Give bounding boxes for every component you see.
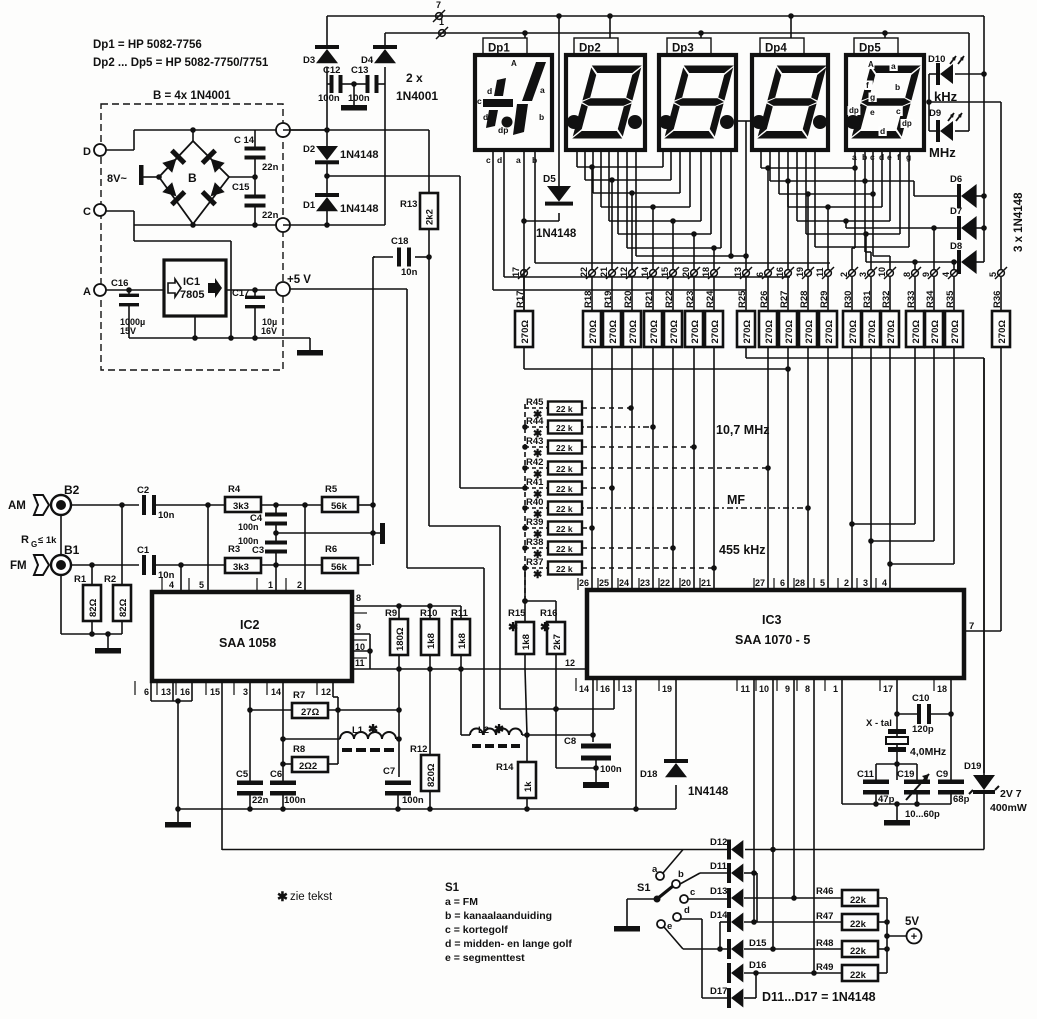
IC3 SAA1070-5 box [587, 590, 964, 678]
svg-text:4,0MHz: 4,0MHz [910, 746, 946, 758]
resistor R25 270 Ohm [745, 277, 747, 311]
svg-text:5: 5 [820, 578, 825, 588]
svg-text:c: c [486, 155, 491, 165]
svg-text:1: 1 [439, 17, 444, 27]
svg-text:c: c [690, 887, 695, 898]
svg-text:6: 6 [780, 578, 785, 588]
svg-text:82Ω: 82Ω [88, 598, 99, 617]
svg-text:R13: R13 [400, 199, 417, 210]
terminal C [94, 204, 106, 216]
svg-text:22 k: 22 k [556, 464, 573, 474]
svg-text:f: f [866, 80, 869, 90]
wire IC2 pin15 down to FM line [221, 681, 223, 850]
wire C1 node to IC2 pin4 [180, 565, 182, 592]
wire dashed R43 to column [582, 446, 694, 448]
svg-text:✱: ✱ [277, 889, 288, 904]
svg-text:16: 16 [180, 687, 190, 697]
svg-text:22 k: 22 k [556, 504, 573, 514]
svg-text:23: 23 [640, 578, 650, 588]
resistor R24 270 Ohm [713, 277, 715, 311]
svg-text:R1: R1 [74, 574, 87, 585]
svg-text:19: 19 [795, 267, 805, 277]
diode D1 [316, 197, 338, 211]
resistor R36 270 Ohm [1000, 277, 1002, 311]
svg-text:SAA 1070 - 5: SAA 1070 - 5 [735, 633, 810, 647]
wire R34 column from D7 line [933, 228, 935, 269]
svg-text:18: 18 [701, 267, 711, 277]
wire dp bus Dp2 Dp3 [635, 150, 637, 256]
svg-text:9: 9 [921, 272, 931, 277]
svg-text:R18: R18 [583, 291, 594, 308]
wire segment bus 6 left matrix [617, 150, 619, 234]
wire IC3 pin11 column [753, 678, 755, 873]
svg-text:270Ω: 270Ω [930, 320, 941, 344]
ground S1 [614, 926, 640, 932]
svg-text:68p: 68p [953, 794, 970, 805]
wire IC3 pin9 column [793, 678, 795, 898]
display Dp4 digit 8 [757, 66, 827, 139]
svg-text:C: C [83, 206, 91, 218]
svg-text:1N4148: 1N4148 [688, 786, 729, 798]
svg-text:D12: D12 [710, 837, 727, 848]
wire AC return [134, 240, 231, 242]
svg-text:R35: R35 [945, 290, 956, 308]
svg-text:d: d [483, 112, 488, 122]
svg-text:D15: D15 [749, 938, 767, 949]
svg-text:8: 8 [805, 684, 810, 694]
svg-text:4: 4 [169, 580, 174, 590]
svg-text:22n: 22n [262, 162, 279, 173]
IC1 ground pin [194, 316, 196, 338]
connector pin 17 [521, 270, 528, 277]
svg-text:82Ω: 82Ω [118, 598, 129, 617]
svg-text:A: A [511, 59, 517, 68]
svg-text:270Ω: 270Ω [710, 320, 721, 344]
wire IC3 pin16 down [613, 678, 615, 709]
svg-text:e = segmenttest: e = segmenttest [445, 952, 525, 964]
svg-text:IC3: IC3 [762, 613, 782, 627]
svg-text:C8: C8 [564, 736, 576, 747]
svg-text:3: 3 [863, 578, 868, 588]
svg-text:C7: C7 [383, 766, 395, 777]
svg-text:D17: D17 [710, 986, 727, 997]
wire Dp3 anode stub [700, 33, 702, 38]
svg-text:Dp4: Dp4 [765, 43, 787, 55]
node circle top rail [192, 130, 194, 141]
svg-text:R23: R23 [685, 291, 696, 308]
svg-text:D3: D3 [303, 55, 315, 66]
svg-text:R: R [21, 534, 29, 546]
svg-text:18: 18 [937, 684, 947, 694]
svg-text:22 k: 22 k [556, 443, 573, 453]
wire Dp1 d to bus [504, 276, 790, 278]
svg-text:Dp2: Dp2 [579, 43, 601, 55]
svg-text:R24: R24 [705, 290, 716, 308]
resistor R30 270 Ohm [851, 277, 853, 311]
display Dp5 letters [867, 60, 875, 69]
wire FM from IC2 pin15 to D12 [222, 849, 727, 851]
svg-text:+: + [911, 931, 917, 943]
svg-text:28: 28 [795, 578, 805, 588]
svg-text:R2: R2 [104, 574, 116, 585]
svg-text:100n: 100n [284, 795, 306, 806]
svg-text:SAA 1058: SAA 1058 [219, 636, 276, 650]
svg-text:1: 1 [833, 684, 838, 694]
wire segment bus 3 left matrix [592, 150, 594, 193]
svg-text:22k: 22k [850, 970, 867, 981]
wire Dp2 anode stub [609, 16, 611, 38]
svg-text:R39: R39 [526, 517, 543, 528]
wire IC2 pins 6 13 16 ground cluster [150, 681, 152, 701]
svg-text:7805: 7805 [180, 289, 204, 301]
connector pin 8 [912, 270, 919, 277]
connector pin 5 [998, 270, 1005, 277]
node circle bottom rail [134, 224, 276, 226]
svg-text:3k3: 3k3 [233, 562, 249, 573]
wire dashed R44 to column [582, 426, 653, 428]
junction D5 to a-pin [521, 218, 527, 224]
connector pin 21 [609, 270, 616, 277]
resistor R20 270 Ohm [631, 277, 633, 311]
svg-text:22k: 22k [850, 946, 867, 957]
display Dp2 digit 8 [572, 66, 642, 139]
svg-text:C5: C5 [236, 769, 249, 780]
svg-text:d: d [487, 86, 492, 96]
connector pin 14 [650, 270, 657, 277]
svg-text:R38: R38 [526, 537, 543, 548]
svg-text:R5: R5 [325, 484, 338, 495]
display Dp1 box [475, 55, 552, 150]
wire IC3 pin1 down [841, 678, 843, 804]
svg-text:270Ω: 270Ω [669, 320, 680, 344]
resistor R33 270 Ohm [914, 277, 916, 311]
svg-text:1: 1 [268, 580, 273, 590]
svg-text:15: 15 [210, 687, 220, 697]
svg-text:D1: D1 [303, 200, 316, 211]
svg-text:22n: 22n [252, 795, 269, 806]
svg-text:IC1: IC1 [183, 276, 200, 288]
wires R18-R24 bottoms to IC3 pins [591, 347, 593, 590]
left bus of 22k array [524, 404, 526, 601]
svg-text:270Ω: 270Ω [649, 320, 660, 344]
svg-text:R27: R27 [779, 291, 790, 308]
svg-text:g: g [870, 92, 875, 102]
svg-text:dp: dp [902, 119, 912, 128]
svg-text:11: 11 [740, 684, 750, 694]
wire IC2 pin12 down to node S [332, 681, 334, 697]
wire 22k bus to R15 R16 [524, 568, 526, 601]
wire segment bus 1 right matrix [760, 150, 762, 168]
resistor R17 270 Ohm [523, 277, 525, 311]
display Dp5 decimal points [846, 115, 860, 129]
svg-text:16: 16 [600, 684, 610, 694]
svg-text:zie tekst: zie tekst [290, 891, 333, 903]
display Dp4 box [752, 55, 828, 150]
svg-text:24: 24 [619, 578, 629, 588]
svg-text:15: 15 [660, 267, 670, 277]
svg-text:c = kortegolf: c = kortegolf [445, 924, 508, 936]
connector pin 2 [849, 270, 856, 277]
wire IC2 pin2 to R4 node [304, 505, 306, 592]
svg-text:5: 5 [988, 272, 998, 277]
connector pin 12 [629, 270, 636, 277]
wire D9 cathode to rail 1 [955, 130, 969, 132]
wire IC3 pin18 down [950, 678, 952, 780]
wire D8 lead from bus6 [863, 231, 869, 237]
display Dp3 digit 8 [664, 66, 734, 139]
wire R35 column from D8 line [953, 262, 955, 269]
svg-text:dp: dp [849, 106, 859, 115]
svg-text:10,7 MHz: 10,7 MHz [716, 423, 770, 437]
wire kHz MHz to R36 column [929, 101, 1001, 103]
connector pin 3 [868, 270, 875, 277]
svg-text:R42: R42 [526, 457, 543, 468]
svg-text:R19: R19 [603, 291, 614, 308]
svg-text:2k7: 2k7 [552, 634, 563, 650]
wire C8 bottom to pin16 line [556, 767, 596, 769]
svg-text:1k8: 1k8 [457, 633, 468, 649]
ground C12 C13 [351, 81, 357, 87]
svg-text:FM: FM [10, 560, 27, 572]
resistor R21 270 Ohm [652, 277, 654, 311]
svg-text:b = kanaalaanduiding: b = kanaalaanduiding [445, 910, 552, 922]
wire D10 anode loop [929, 73, 940, 75]
svg-text:13: 13 [733, 267, 743, 277]
svg-text:c: c [896, 106, 901, 116]
svg-text:B1: B1 [64, 543, 80, 557]
svg-text:R37: R37 [526, 557, 543, 568]
wire dashed R39 to column [582, 527, 592, 529]
wire segment bus 5 right matrix [796, 150, 798, 221]
svg-text:R40: R40 [526, 497, 543, 508]
wire Dp5 anode stub [884, 33, 886, 38]
display Dp5 digit 8 [851, 66, 921, 139]
svg-text:2: 2 [297, 580, 302, 590]
wire IC3 pin13 to ground bus [635, 678, 637, 809]
svg-text:270Ω: 270Ω [690, 320, 701, 344]
svg-text:A: A [83, 286, 91, 298]
wire IC2 pin1 to C3 node [275, 565, 277, 592]
svg-text:D7: D7 [950, 206, 962, 217]
display Dp2 decimal points [567, 115, 581, 129]
wire C to bottom rail [106, 210, 134, 212]
diode D5 [558, 16, 560, 186]
svg-text:20: 20 [681, 578, 691, 588]
svg-text:2V 7: 2V 7 [1000, 788, 1022, 800]
connector pin 11 [825, 270, 832, 277]
svg-text:B2: B2 [64, 483, 80, 497]
wire segment bus 5 left matrix [608, 150, 610, 221]
svg-text:270Ω: 270Ω [848, 320, 859, 344]
svg-text:2Ω2: 2Ω2 [299, 761, 317, 772]
svg-text:15V: 15V [120, 326, 136, 336]
svg-text:9: 9 [356, 622, 361, 632]
svg-text:400mW: 400mW [990, 802, 1027, 814]
svg-text:D14: D14 [710, 910, 728, 921]
svg-text:c: c [477, 96, 482, 106]
display Dp4 decimal points [752, 115, 766, 129]
L2 core dashes [472, 744, 481, 748]
wire Dp5 abc drops to resistors [852, 165, 858, 171]
wire IC2 pin3 down [249, 681, 251, 781]
svg-text:B: B [188, 171, 197, 185]
svg-text:6: 6 [755, 272, 765, 277]
svg-text:R16: R16 [540, 608, 557, 619]
svg-text:7: 7 [436, 0, 441, 10]
capacitor C12 [326, 67, 328, 130]
svg-text:R25: R25 [737, 290, 748, 308]
svg-text:270Ω: 270Ω [628, 320, 639, 344]
svg-text:6: 6 [144, 687, 149, 697]
svg-text:2 x: 2 x [406, 71, 423, 85]
svg-text:8: 8 [902, 272, 912, 277]
wire D6 anode to rail [976, 195, 984, 197]
svg-text:R9: R9 [385, 608, 397, 619]
wire segment bus 2 left matrix [584, 150, 586, 180]
bottom node line crystal [842, 803, 951, 805]
svg-text:1N4148: 1N4148 [340, 203, 379, 215]
wire segment bus 4 left matrix [600, 150, 602, 207]
svg-text:120p: 120p [912, 724, 934, 735]
svg-text:R47: R47 [816, 911, 833, 922]
8V~ input stub [139, 165, 144, 185]
svg-text:C13: C13 [351, 65, 368, 76]
svg-text:Dp1 = HP 5082-7756: Dp1 = HP 5082-7756 [93, 39, 202, 51]
svg-text:Dp3: Dp3 [672, 43, 694, 55]
wire IC3 pin14 to L2 node [592, 678, 594, 735]
svg-text:R14: R14 [496, 762, 514, 773]
svg-text:C10: C10 [912, 693, 929, 704]
svg-text:C19: C19 [897, 769, 914, 780]
rail D3 column [384, 67, 386, 225]
connector pin 10 [887, 270, 894, 277]
resistor R35 270 Ohm [953, 277, 955, 311]
svg-text:D6: D6 [950, 174, 962, 185]
svg-text:100n: 100n [348, 93, 370, 104]
connector pin 16 [785, 270, 792, 277]
wire +5V feed to L2 path [290, 288, 407, 290]
svg-text:100n: 100n [600, 764, 622, 775]
wire R17 bottom to R27 column [523, 347, 525, 369]
wire contact a stub [663, 850, 683, 874]
svg-text:1k8: 1k8 [426, 633, 437, 649]
connector pin 15 [670, 270, 677, 277]
svg-text:14: 14 [640, 267, 650, 277]
svg-text:22: 22 [660, 578, 670, 588]
wire dashed R38 to column [582, 547, 673, 549]
svg-text:22n: 22n [262, 210, 279, 221]
svg-text:1N4001: 1N4001 [396, 89, 438, 103]
svg-text:R43: R43 [526, 436, 543, 447]
svg-text:R45: R45 [526, 397, 544, 408]
svg-text:AM: AM [8, 500, 26, 512]
diode D4 [384, 33, 386, 49]
terminator bar [380, 523, 385, 544]
display Dp2 box [566, 55, 645, 150]
svg-text:+5 V: +5 V [287, 274, 311, 286]
svg-text:a = FM: a = FM [445, 896, 478, 908]
wire segment bus 1 left matrix [576, 150, 578, 167]
svg-text:13: 13 [622, 684, 632, 694]
wire Dp1 b to bus [535, 262, 830, 264]
wire dashed R40 to column [582, 507, 808, 509]
svg-text:13: 13 [161, 687, 171, 697]
svg-text:C12: C12 [323, 65, 340, 76]
wire B2 to C2 [71, 504, 139, 506]
wire A to IC1 [106, 289, 164, 291]
svg-text:Dp1: Dp1 [488, 43, 510, 55]
svg-text:B = 4x 1N4001: B = 4x 1N4001 [153, 90, 231, 102]
svg-text:270Ω: 270Ω [911, 320, 922, 344]
connector pin 13 [743, 270, 750, 277]
wire segment bus 4 right matrix [787, 150, 789, 207]
supply ground line [129, 337, 310, 339]
wire C18 down rail [373, 256, 375, 258]
svg-text:270Ω: 270Ω [784, 320, 795, 344]
svg-text:R46: R46 [816, 886, 833, 897]
svg-text:270Ω: 270Ω [886, 320, 897, 344]
wire Dp4 anode stub [790, 16, 792, 38]
wire R5 R6 join C18 net [372, 257, 374, 565]
resistor R34 270 Ohm [933, 277, 935, 311]
svg-text:3k3: 3k3 [233, 501, 249, 512]
resistor R19 270 Ohm [611, 277, 613, 311]
svg-text:MF: MF [727, 493, 745, 507]
svg-text:12: 12 [321, 687, 331, 697]
svg-text:8V~: 8V~ [107, 173, 127, 185]
svg-text:8: 8 [356, 593, 361, 603]
svg-text:16V: 16V [261, 326, 277, 336]
svg-text:1N4148: 1N4148 [536, 228, 577, 240]
svg-text:C6: C6 [270, 769, 282, 780]
svg-text:455 kHz: 455 kHz [719, 543, 766, 557]
wire segment bus 7 left matrix [626, 150, 628, 248]
svg-text:270Ω: 270Ω [520, 320, 531, 344]
top rail 7 [327, 15, 981, 17]
svg-text:L1: L1 [352, 725, 364, 736]
svg-text:270Ω: 270Ω [867, 320, 878, 344]
wire D10 cathode to rail 7 [955, 73, 984, 75]
svg-text:11: 11 [355, 658, 365, 668]
connector pin 9 [931, 270, 938, 277]
svg-text:Dp5: Dp5 [859, 43, 881, 55]
svg-text:270Ω: 270Ω [588, 320, 599, 344]
wire segment bus 7 right matrix [814, 150, 816, 247]
svg-text:10: 10 [759, 684, 769, 694]
svg-text:R36: R36 [992, 291, 1003, 308]
svg-text:11: 11 [815, 267, 825, 277]
resistor R31 270 Ohm [870, 277, 872, 311]
svg-text:22k: 22k [850, 895, 867, 906]
svg-text:C1: C1 [137, 545, 150, 556]
wire segment bus 6 right matrix [805, 150, 807, 234]
connector pin 6 [765, 270, 772, 277]
svg-text:S1: S1 [445, 882, 460, 894]
svg-text:16: 16 [775, 267, 785, 277]
svg-text:R17: R17 [515, 291, 526, 308]
svg-text:17: 17 [511, 267, 521, 277]
svg-text:R31: R31 [862, 290, 873, 308]
wire B2 shield to B1 [60, 515, 62, 555]
drops to R26-R29 [765, 165, 771, 171]
svg-text:14: 14 [579, 684, 589, 694]
svg-text:12: 12 [619, 267, 629, 277]
svg-text:a: a [652, 864, 658, 875]
svg-text:R8: R8 [293, 744, 305, 755]
diode D3 [326, 16, 328, 49]
wire crystal to C11 C19 C9 node [896, 752, 898, 780]
svg-text:4: 4 [941, 272, 951, 277]
